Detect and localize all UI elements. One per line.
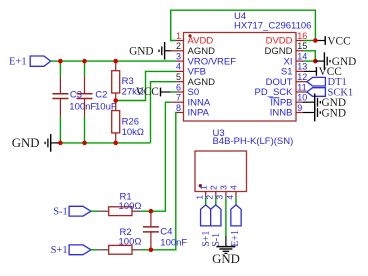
power VCC at pin 16 [315, 40, 325, 42]
ground at pin 10 [303, 101, 315, 103]
wire: pin15 DGND down to XI net [304, 51, 316, 61]
svg-text:1: 1 [198, 185, 208, 190]
connector pin 3 stub [225, 192, 227, 198]
svg-text:6: 6 [176, 82, 181, 92]
resistor R1 [97, 210, 108, 212]
resistor R3 [115, 61, 117, 71]
port SCK1 [307, 88, 326, 97]
junction top rail C2 [82, 59, 87, 64]
power VCC at pin 13 [305, 70, 317, 72]
wire: S+1 to R2 [91, 249, 98, 251]
svg-text:B4B-PH-K(LF)(SN): B4B-PH-K(LF)(SN) [213, 136, 294, 147]
pin 3 VRO/VREF stub [176, 60, 184, 62]
pin 8 INPA stub [176, 112, 183, 114]
port E+1 [30, 56, 50, 66]
svg-text:100nF: 100nF [160, 238, 187, 249]
svg-text:3: 3 [176, 51, 181, 61]
svg-text:S+1: S+1 [51, 245, 68, 256]
svg-text:VCC: VCC [136, 86, 159, 98]
junction R2 out [149, 248, 154, 253]
pin 5 AGND stub [176, 81, 184, 83]
svg-text:HX717_C2961106: HX717_C2961106 [234, 20, 311, 31]
wire: pin2 to S-1 port [215, 197, 217, 205]
junction top rail R3 [113, 59, 118, 64]
pin 2 AGND stub [171, 50, 184, 52]
svg-text:GND: GND [212, 252, 240, 266]
wire: S-1 to R1 [91, 210, 98, 212]
junction top rail C3 [58, 59, 63, 64]
wire: bottom ground rail [57, 142, 151, 144]
svg-text:C4: C4 [160, 227, 172, 238]
wire: pin4 to E+1 port [235, 197, 237, 205]
connector U3 body [195, 151, 247, 192]
svg-text:GND: GND [12, 136, 40, 150]
wire: pin3 to ground [225, 197, 227, 236]
svg-text:INNB: INNB [270, 108, 293, 119]
earth ground [216, 246, 235, 248]
junction bottom rail C3 [58, 141, 63, 146]
pin 13 S1 stub [296, 70, 305, 72]
svg-text:VCC: VCC [327, 35, 350, 47]
svg-text:INPA: INPA [188, 108, 210, 119]
svg-text:12: 12 [297, 72, 307, 82]
port S-1 bottom [211, 205, 221, 226]
svg-text:1: 1 [195, 195, 205, 200]
junction pin14 [313, 59, 318, 64]
junction pin16 VCC [313, 38, 318, 43]
pin 1 AVDD stub [176, 40, 184, 42]
connector pin 2 stub [215, 192, 217, 198]
svg-text:C2: C2 [95, 90, 107, 101]
svg-text:S-1: S-1 [53, 206, 68, 217]
svg-text:9: 9 [297, 103, 302, 113]
svg-text:100Ω: 100Ω [119, 201, 142, 212]
svg-text:S-1: S-1 [211, 233, 222, 247]
port DT1 [307, 77, 326, 86]
svg-text:E+1: E+1 [230, 230, 241, 247]
svg-text:13: 13 [297, 62, 307, 72]
connector pin 4 stub [235, 192, 237, 198]
capacitor C3 [59, 61, 61, 77]
wire: pin14 XI to GND [304, 60, 316, 62]
wire: AVDD top loop pin1 to pin16 junction [171, 10, 316, 40]
svg-text:E+1: E+1 [9, 57, 27, 68]
resistor R26 [115, 101, 117, 111]
junction R1 out [149, 209, 154, 214]
wire: INPA to R2 [151, 113, 177, 250]
pin 16 DVDD stub [296, 40, 304, 42]
pin 4 VFB stub [176, 70, 184, 72]
ground bottom left [51, 142, 61, 144]
svg-text:16: 16 [297, 31, 307, 41]
svg-text:2: 2 [176, 41, 181, 51]
svg-text:10kΩ: 10kΩ [122, 127, 144, 138]
svg-text:4: 4 [176, 62, 181, 72]
svg-text:4: 4 [229, 185, 239, 190]
wire: pin5 AGND to bottom rail [151, 82, 177, 143]
ground at pin 9 [303, 112, 315, 114]
svg-text:14: 14 [297, 51, 307, 61]
port S-1 [69, 206, 91, 216]
ground at pin 14 [315, 60, 324, 62]
port S+1 bottom [201, 205, 211, 226]
svg-text:5: 5 [176, 72, 181, 82]
wire: INNA to R1 [151, 102, 171, 211]
pin 12 DOUT stub [296, 81, 307, 83]
svg-text:10: 10 [297, 93, 307, 103]
svg-text:100Ω: 100Ω [119, 236, 142, 247]
svg-text:11: 11 [297, 82, 306, 92]
svg-text:GND: GND [322, 107, 346, 119]
pin 14 XI stub [296, 60, 304, 62]
svg-text:15: 15 [297, 41, 307, 51]
junction bottom rail C2 [82, 141, 87, 146]
junction R3-R26 divider [113, 98, 118, 103]
capacitor C2 [84, 61, 86, 77]
pin 11 PD_SCK stub [296, 91, 307, 93]
pin 9 INNB stub [296, 112, 303, 114]
pin 10 INPB stub [296, 101, 303, 103]
connector pin 1 stub [205, 192, 207, 198]
port S+1 [69, 245, 91, 255]
port E+1 bottom [231, 205, 241, 226]
capacitor C4 [150, 211, 152, 226]
junction bottom rail R26 [113, 141, 118, 146]
ground at pin 2 [165, 50, 171, 52]
wire: pin1 to S+1 port [205, 197, 207, 205]
wire: top rail E+1 net [51, 60, 176, 62]
svg-text:3: 3 [219, 185, 229, 190]
pin 15 DGND stub [296, 50, 304, 52]
wire: VFB feedback from divider [116, 71, 176, 100]
svg-text:2: 2 [209, 185, 219, 190]
svg-text:100nF: 100nF [69, 101, 96, 112]
resistor R2 [97, 249, 108, 251]
pin 7 INNA stub [171, 101, 184, 103]
svg-text:GND: GND [129, 46, 153, 58]
IC U4 HX717 body [184, 33, 297, 122]
svg-text:1: 1 [176, 31, 181, 41]
svg-text:8: 8 [176, 103, 181, 113]
power VCC at pin 6 [161, 91, 171, 93]
wire: pin16 to VCC junction [304, 40, 316, 42]
svg-text:7: 7 [176, 93, 181, 103]
pin 6 S0 stub [176, 91, 184, 93]
